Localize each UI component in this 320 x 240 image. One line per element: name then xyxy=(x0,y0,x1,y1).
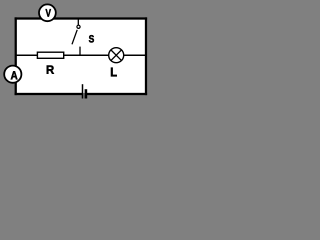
lamp L xyxy=(109,48,124,63)
wire bottom border left of battery xyxy=(15,93,83,95)
circuit board white interior xyxy=(17,20,145,93)
switch S blade xyxy=(72,30,77,45)
ammeter A xyxy=(4,66,21,83)
voltmeter V xyxy=(39,4,56,21)
label R xyxy=(47,66,54,74)
battery long plate xyxy=(82,84,84,98)
wire switch upper xyxy=(77,18,79,25)
wire bottom border right of battery xyxy=(86,93,147,95)
wire right border xyxy=(145,17,147,95)
label S xyxy=(89,35,94,42)
label L xyxy=(111,68,117,77)
wire switch lower xyxy=(79,47,81,56)
switch S contact circle xyxy=(77,25,80,28)
battery short plate xyxy=(85,89,88,98)
wire top border xyxy=(15,17,148,19)
wire middle horizontal xyxy=(16,54,145,56)
wire left border xyxy=(15,17,17,95)
gray background xyxy=(0,0,149,107)
resistor R xyxy=(37,52,63,58)
